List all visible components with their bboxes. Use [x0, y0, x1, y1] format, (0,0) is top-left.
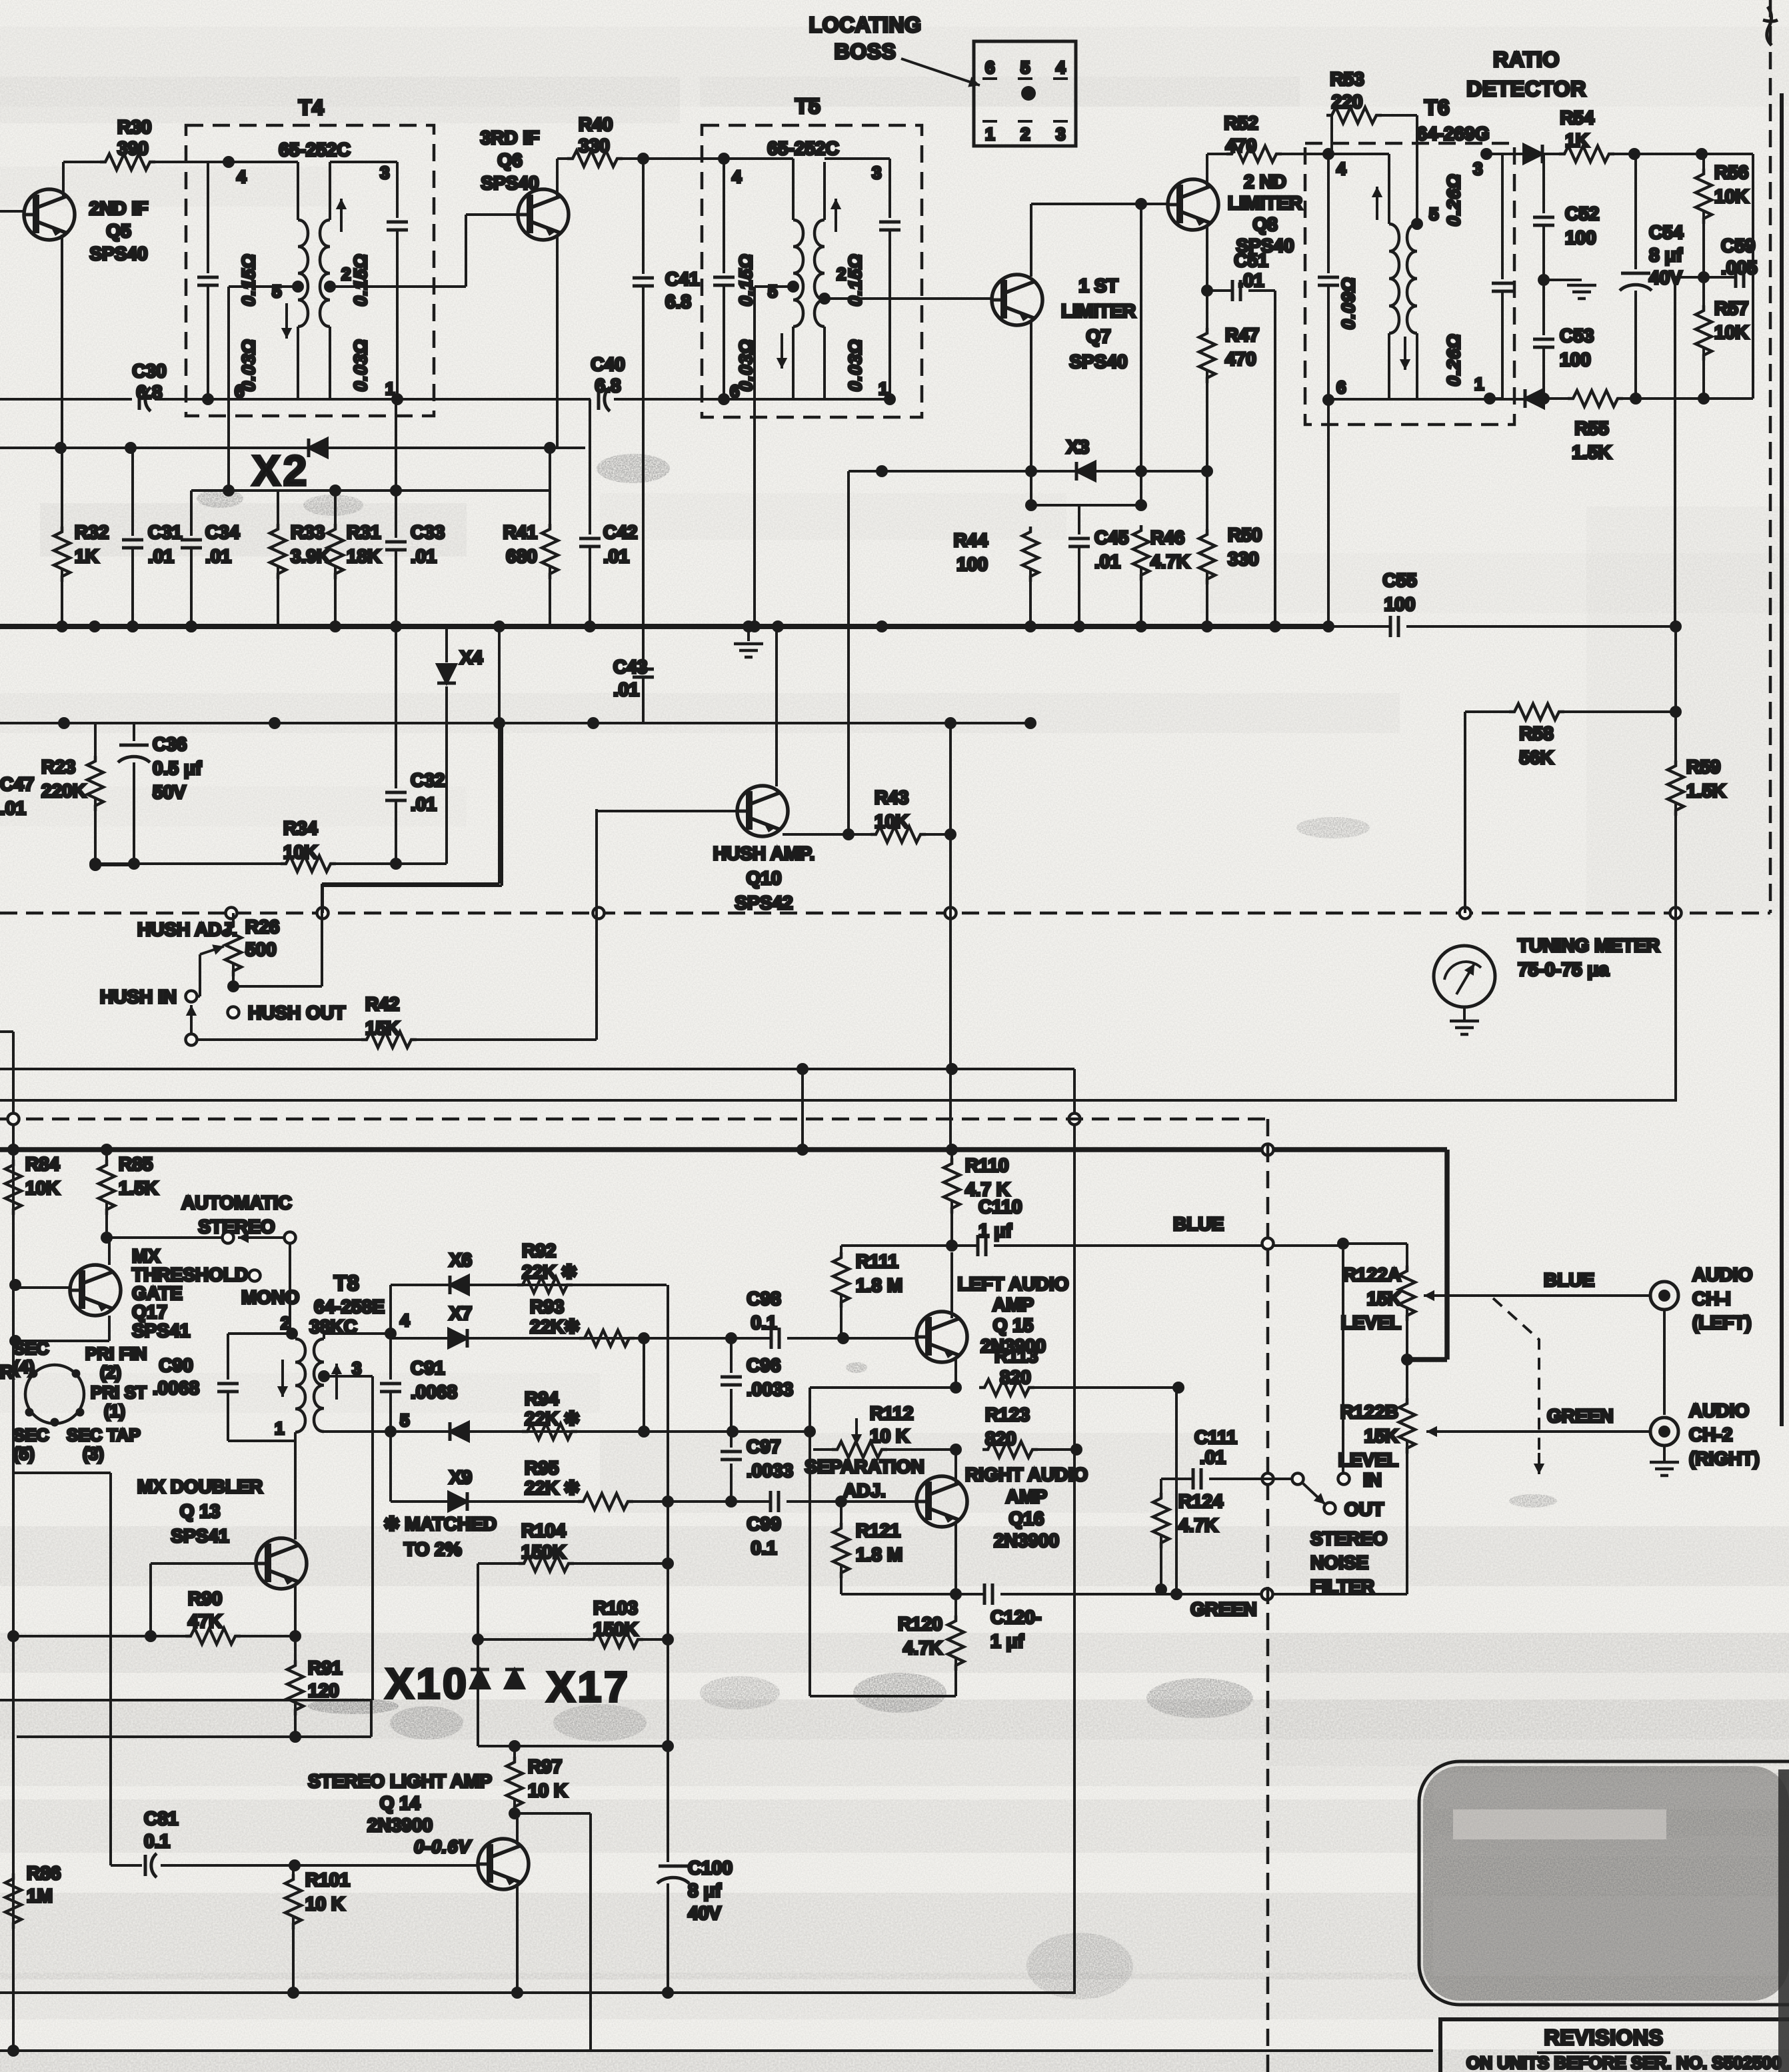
- inductor T6 primary: [1388, 154, 1390, 224]
- svg-text:R23: R23: [41, 756, 75, 777]
- svg-text:.0033: .0033: [747, 1379, 793, 1400]
- diode X detector bottom: [1525, 389, 1544, 408]
- svg-text:PRI FIN: PRI FIN: [85, 1344, 147, 1364]
- jack audio ch1: [1650, 1282, 1678, 1310]
- wire Q13 base: [151, 1562, 256, 1565]
- wire R30 right: [63, 161, 100, 163]
- svg-text:R86: R86: [27, 1863, 61, 1883]
- wire T4 pin2 tap: [324, 281, 336, 293]
- resistor R42: [361, 1032, 417, 1048]
- capacitor C53: [1542, 280, 1545, 335]
- svg-text:C51: C51: [1234, 250, 1268, 271]
- capacitor C59: [1736, 267, 1744, 288]
- wire net L3: [0, 447, 585, 449]
- svg-text:64-269G: 64-269G: [1417, 123, 1490, 144]
- svg-text:MONO: MONO: [241, 1287, 299, 1308]
- svg-text:(RIGHT): (RIGHT): [1689, 1448, 1760, 1469]
- wire Q17 emitter: [108, 1316, 111, 1341]
- wire rail A: [0, 1068, 1074, 1070]
- resistor R32: [61, 448, 63, 526]
- resistor R110: [950, 1150, 953, 1158]
- svg-text:BLUE: BLUE: [1544, 1270, 1594, 1290]
- svg-text:65-252C: 65-252C: [279, 139, 350, 160]
- capacitor T6 left: [1327, 154, 1330, 273]
- svg-text:75-0-75 μa: 75-0-75 μa: [1518, 959, 1609, 980]
- diode X detector top: [1524, 145, 1542, 163]
- svg-text:ON UNITS BEFORE SER. NO. S5025: ON UNITS BEFORE SER. NO. S502500: [1466, 2053, 1781, 2072]
- svg-text:2N3900: 2N3900: [367, 1815, 433, 1835]
- svg-text:3: 3: [380, 163, 389, 183]
- wire stereo line drop: [949, 723, 952, 834]
- svg-text:X6: X6: [449, 1250, 472, 1270]
- svg-text:4.7K: 4.7K: [903, 1637, 942, 1658]
- svg-text:R41: R41: [503, 522, 537, 542]
- svg-text:1 μf: 1 μf: [990, 1631, 1024, 1651]
- resistor R30: [100, 154, 155, 170]
- svg-text:DETECTOR: DETECTOR: [1466, 77, 1586, 101]
- svg-text:LIMITER: LIMITER: [1061, 301, 1136, 321]
- svg-text:0.15Ω: 0.15Ω: [239, 254, 259, 307]
- switch noise filter: [1303, 1484, 1325, 1504]
- svg-text:R95: R95: [525, 1458, 559, 1478]
- wire green line right: [1176, 1593, 1407, 1595]
- svg-text:AMP: AMP: [1006, 1486, 1047, 1507]
- svg-text:C100: C100: [688, 1857, 733, 1878]
- wire blue out: [1450, 1294, 1651, 1297]
- svg-text:4.7K: 4.7K: [1178, 1515, 1218, 1536]
- svg-text:4: 4: [237, 167, 247, 187]
- svg-text:MX DOUBLER: MX DOUBLER: [137, 1476, 263, 1497]
- transistor Q14: [477, 1839, 529, 1889]
- svg-text:.01: .01: [1094, 551, 1120, 572]
- big rounded box: [1419, 1761, 1789, 2005]
- svg-text:0.03Ω: 0.03Ω: [845, 339, 865, 392]
- resistor R58: [1509, 704, 1564, 720]
- top-right pen squiggle: [1763, 7, 1778, 45]
- svg-text:.0068: .0068: [153, 1378, 199, 1398]
- resistor R85: [105, 1150, 108, 1160]
- svg-text:R26: R26: [245, 916, 279, 937]
- wire Q5 base: [0, 210, 24, 213]
- scan noise filters: [0, 0, 1, 1]
- wire R92 corner: [667, 1285, 669, 1502]
- wire Q13 emitter: [294, 1585, 297, 1636]
- wire Q6 collector: [556, 159, 559, 196]
- svg-text:0.03Ω: 0.03Ω: [351, 339, 371, 392]
- svg-text:X10: X10: [385, 1659, 469, 1707]
- svg-text:6: 6: [1336, 377, 1346, 397]
- svg-text:8 μf: 8 μf: [688, 1880, 721, 1901]
- capacitor T5 left: [723, 159, 725, 273]
- svg-text:0.1: 0.1: [751, 1538, 777, 1558]
- inductor T8 primary: [295, 1339, 305, 1432]
- diode X4: [445, 626, 448, 662]
- diode X3: [1076, 462, 1095, 481]
- wire green out: [1466, 1430, 1651, 1433]
- wire T4 pin4 line: [229, 161, 298, 163]
- wire T5 pin5 tap: [787, 281, 799, 293]
- capacitor C45: [1078, 505, 1080, 534]
- svg-text:C41: C41: [665, 269, 699, 289]
- svg-text:0.5 μf: 0.5 μf: [153, 758, 202, 778]
- wire T5 pin2 tap: [819, 293, 831, 305]
- wire Q16 emitter: [954, 1523, 957, 1594]
- svg-text:R47: R47: [1225, 325, 1259, 345]
- diode X10: [471, 1669, 489, 1688]
- svg-text:R50: R50: [1228, 524, 1262, 545]
- terminal noise out: [1324, 1503, 1336, 1514]
- svg-text:150K: 150K: [593, 1619, 638, 1639]
- svg-text:X3: X3: [1066, 437, 1089, 457]
- wire switch feed: [107, 1236, 223, 1239]
- wire T6 bottom net: [1322, 394, 1334, 406]
- terminal hush in: [186, 991, 197, 1002]
- wire T8 pin1 line: [228, 1440, 295, 1442]
- svg-text:R31: R31: [347, 522, 381, 542]
- inductor T8 secondary: [314, 1339, 324, 1432]
- svg-text:1: 1: [275, 1418, 284, 1438]
- svg-text:Q17: Q17: [132, 1302, 167, 1322]
- resistor R93: [579, 1330, 635, 1346]
- svg-text:T8: T8: [334, 1271, 359, 1295]
- diode X17d: [505, 1669, 524, 1688]
- svg-text:.01: .01: [1200, 1447, 1226, 1468]
- arrow hush in: [190, 1005, 193, 1034]
- svg-text:3RD IF: 3RD IF: [481, 127, 540, 148]
- svg-text:Q 14: Q 14: [380, 1793, 421, 1813]
- meter M1: [1434, 946, 1495, 1007]
- capacitor C32: [395, 626, 397, 788]
- svg-text:3: 3: [872, 163, 881, 183]
- svg-text:330: 330: [1228, 548, 1259, 569]
- svg-text:C55: C55: [1382, 570, 1416, 590]
- wire T6 top net: [1486, 153, 1524, 155]
- capacitor C81: [111, 1864, 142, 1867]
- ground meter: [1463, 1007, 1466, 1020]
- capacitor C42: [589, 399, 591, 534]
- arrow T8 secondary: [335, 1364, 338, 1400]
- svg-text:64-258E: 64-258E: [314, 1296, 385, 1317]
- wire T5 pin3 line: [825, 157, 890, 160]
- svg-text:R30: R30: [117, 117, 151, 137]
- wire R120 bottom: [810, 1695, 956, 1697]
- svg-text:X17: X17: [547, 1663, 631, 1711]
- svg-text:Q8: Q8: [1252, 214, 1277, 235]
- diode X6: [450, 1276, 469, 1294]
- svg-text:C120-: C120-: [990, 1607, 1041, 1627]
- wire Q14 emitter: [516, 1883, 519, 1993]
- svg-text:HUSH IN: HUSH IN: [100, 986, 177, 1007]
- svg-text:C54: C54: [1649, 222, 1684, 243]
- wire Q10 base: [597, 810, 737, 812]
- locating boss arrow: [901, 59, 980, 85]
- capacitor C41: [642, 159, 645, 274]
- svg-text:(5): (5): [13, 1444, 35, 1464]
- inductor T5 primary: [792, 159, 795, 220]
- svg-text:C96: C96: [747, 1355, 781, 1376]
- transformer T4 box: [186, 125, 434, 416]
- svg-text:R56: R56: [1714, 162, 1748, 183]
- paper noise bands: [0, 27, 1789, 107]
- capacitor C97: [730, 1432, 733, 1448]
- svg-text:THRESHOLD: THRESHOLD: [132, 1264, 248, 1285]
- wire R59 to rail B: [1674, 913, 1677, 1100]
- svg-text:.0033: .0033: [747, 1460, 793, 1481]
- svg-text:BOSS: BOSS: [835, 39, 896, 63]
- svg-text:Q16: Q16: [1009, 1508, 1044, 1529]
- svg-text:3.9K: 3.9K: [291, 546, 330, 566]
- svg-text:3: 3: [352, 1358, 361, 1378]
- svg-text:10K: 10K: [283, 842, 317, 862]
- wire left stub: [0, 1030, 13, 1033]
- resistor R103: [478, 1638, 591, 1641]
- resistor R34: [281, 856, 336, 872]
- inductor T4 primary: [297, 162, 299, 220]
- locating boss dot: [1021, 86, 1036, 101]
- svg-text:R46: R46: [1150, 527, 1184, 548]
- svg-text:10 K: 10 K: [305, 1893, 345, 1914]
- svg-text:C52: C52: [1565, 203, 1599, 224]
- svg-text:SPS40: SPS40: [89, 243, 147, 264]
- svg-text:BLUE: BLUE: [1173, 1214, 1224, 1234]
- svg-text:FILTER: FILTER: [1310, 1576, 1374, 1597]
- svg-text:Q5: Q5: [106, 221, 131, 241]
- transistor Q16 RIGHT AUDIO: [915, 1476, 967, 1527]
- ground jack ch2: [1663, 1446, 1666, 1461]
- svg-text:.01: .01: [205, 546, 231, 566]
- svg-text:SEC: SEC: [13, 1338, 49, 1358]
- svg-text:✱ MATCHED: ✱ MATCHED: [384, 1514, 497, 1534]
- svg-text:Q7: Q7: [1086, 326, 1110, 347]
- svg-text:SPS42: SPS42: [735, 892, 793, 913]
- wire tap rail x559: [371, 1376, 374, 1700]
- resistor R57: [1702, 277, 1705, 305]
- svg-text:R40: R40: [579, 114, 613, 135]
- wire C51 right rail: [1274, 291, 1276, 626]
- svg-text:1M: 1M: [27, 1885, 53, 1906]
- svg-text:100: 100: [1565, 227, 1596, 248]
- wire net L2: [0, 398, 132, 401]
- arrow R122A wiper: [1424, 1294, 1450, 1297]
- svg-text:CH-I: CH-I: [1692, 1288, 1731, 1309]
- wire X9 right: [633, 1500, 771, 1503]
- svg-text:1.5K: 1.5K: [1572, 442, 1611, 463]
- svg-text:100: 100: [1384, 594, 1416, 614]
- resistor R92: [517, 1277, 573, 1293]
- wire noise in rail: [1342, 1250, 1344, 1473]
- wire X6 net: [389, 1285, 392, 1334]
- svg-text:4: 4: [732, 167, 742, 187]
- resistor R33: [277, 491, 279, 524]
- terminal noise in b: [1338, 1474, 1350, 1485]
- capacitor C52: [1542, 154, 1545, 213]
- svg-text:.01: .01: [603, 546, 629, 566]
- svg-text:CH-2: CH-2: [1689, 1424, 1732, 1445]
- wire R97 right: [478, 1745, 668, 1747]
- capacitor T4 right: [396, 162, 399, 218]
- svg-text:R42: R42: [365, 994, 399, 1014]
- capacitor C36: [133, 723, 135, 741]
- resistor R47: [1206, 291, 1208, 328]
- wire T4 pin3 line: [330, 161, 397, 163]
- svg-text:6: 6: [985, 57, 994, 77]
- svg-text:1: 1: [1474, 374, 1484, 394]
- svg-text:10K: 10K: [25, 1178, 59, 1198]
- svg-text:LOCATING: LOCATING: [809, 13, 922, 37]
- wire T6 pin5 tap: [1411, 218, 1423, 230]
- svg-text:4: 4: [1056, 57, 1066, 77]
- transistor Q17 MX THRESHOLD: [69, 1265, 121, 1316]
- svg-text:470: 470: [1226, 135, 1257, 156]
- svg-text:470: 470: [1225, 349, 1256, 369]
- terminal hush out: [228, 1007, 239, 1018]
- svg-text:REVISIONS: REVISIONS: [1544, 2025, 1664, 2049]
- transformer T6 box: [1305, 143, 1514, 425]
- svg-text:1 ST: 1 ST: [1078, 275, 1118, 296]
- capacitor C31: [131, 448, 134, 536]
- inductor T6 secondary: [1407, 224, 1417, 333]
- wire R26 bottom net: [233, 985, 322, 988]
- wire green line left: [841, 1593, 984, 1595]
- svg-text:R93: R93: [530, 1296, 564, 1317]
- svg-text:R33: R33: [291, 522, 325, 542]
- wire T4 pin5 tap: [292, 281, 304, 293]
- terminal stereo sw: [285, 1232, 296, 1244]
- wire SCA branch: [847, 471, 850, 833]
- svg-text:0.03Ω: 0.03Ω: [736, 339, 756, 392]
- wire X7 to C98: [644, 1337, 771, 1340]
- svg-text:0.1: 0.1: [144, 1831, 170, 1851]
- svg-text:C42: C42: [603, 522, 637, 542]
- svg-text:C53: C53: [1560, 325, 1594, 346]
- svg-text:22K ✱: 22K ✱: [525, 1478, 580, 1498]
- svg-text:R52: R52: [1224, 113, 1258, 133]
- svg-text:HUSH OUT: HUSH OUT: [248, 1002, 345, 1023]
- wire Q10 base rail: [595, 809, 598, 1040]
- svg-text:T6: T6: [1424, 95, 1450, 119]
- svg-text:1.5K: 1.5K: [119, 1178, 158, 1198]
- resistor R113: [979, 1380, 1034, 1396]
- svg-text:LEVEL: LEVEL: [1341, 1312, 1401, 1333]
- wire Q13 collector: [294, 1441, 297, 1540]
- wire R113 net: [810, 1386, 956, 1389]
- capacitor C100: [667, 1746, 669, 1862]
- svg-text:56K: 56K: [1519, 747, 1553, 768]
- svg-text:(2): (2): [100, 1362, 121, 1382]
- svg-text:Q 15: Q 15: [993, 1315, 1034, 1336]
- arrow T8 primary: [281, 1360, 284, 1397]
- dashed wiper link: [1493, 1298, 1539, 1466]
- svg-text:T5: T5: [795, 94, 821, 118]
- resistor R95: [578, 1494, 633, 1510]
- arrow T6 primary: [1376, 187, 1378, 220]
- resistor R31: [334, 491, 337, 524]
- svg-text:IN: IN: [1363, 1470, 1382, 1490]
- wire C52 C53 ground stub: [1544, 279, 1582, 281]
- svg-text:C47: C47: [0, 774, 34, 794]
- arrow T5 primary: [781, 333, 783, 369]
- svg-text:ADJ.: ADJ.: [843, 1480, 886, 1501]
- svg-text:Q10: Q10: [747, 868, 782, 888]
- svg-text:2ND IF: 2ND IF: [89, 198, 149, 219]
- svg-text:8 μf: 8 μf: [1649, 245, 1682, 265]
- svg-text:R113: R113: [994, 1346, 1038, 1366]
- jack audio ch2: [1650, 1418, 1678, 1446]
- transistor Q10 HUSH AMP: [736, 786, 788, 836]
- resistor R94: [522, 1424, 577, 1440]
- wire T8 pin4 net: [324, 1332, 391, 1335]
- resistor R123: [982, 1442, 1038, 1458]
- wire C59 net: [1698, 271, 1710, 283]
- svg-text:SPS41: SPS41: [171, 1526, 229, 1546]
- terminal noise in a: [1292, 1474, 1304, 1485]
- svg-text:4.7K: 4.7K: [1150, 551, 1190, 572]
- resistor R54: [1542, 153, 1562, 155]
- svg-text:R112: R112: [870, 1403, 913, 1424]
- resistor R46: [1133, 525, 1149, 580]
- resistor R121: [840, 1502, 843, 1523]
- svg-text:2N3900: 2N3900: [994, 1530, 1059, 1551]
- svg-text:AUDIO: AUDIO: [1689, 1400, 1749, 1421]
- transistor Q6 3RD IF: [517, 189, 569, 240]
- svg-text:5: 5: [768, 281, 777, 301]
- svg-text:330: 330: [579, 135, 610, 156]
- wire T5 pin4 line: [724, 157, 793, 160]
- diode X7: [449, 1329, 467, 1348]
- wire jack ch1 down: [1663, 1310, 1666, 1415]
- svg-text:18K: 18K: [347, 546, 381, 566]
- svg-text:5: 5: [1020, 57, 1030, 77]
- inductor T5 secondary: [815, 220, 825, 327]
- wire X7 net: [391, 1337, 644, 1340]
- svg-text:RATIO: RATIO: [1493, 47, 1560, 71]
- wire T8 pin2: [286, 1328, 298, 1340]
- potentiometer R122B: [1406, 1360, 1408, 1398]
- svg-text:2: 2: [341, 264, 351, 284]
- svg-text:R55: R55: [1574, 418, 1608, 439]
- wire hush out net: [197, 1038, 364, 1041]
- pickup coil diagram: [25, 1365, 84, 1424]
- wire Q6 emitter: [556, 235, 559, 448]
- svg-text:RIGHT AUDIO: RIGHT AUDIO: [965, 1464, 1088, 1485]
- resistor R97: [509, 1740, 521, 1752]
- wire Q7 collector: [1030, 204, 1032, 277]
- svg-text:1K: 1K: [75, 546, 99, 566]
- dashed module border stereo top: [0, 1118, 1268, 1121]
- wire net L4: [191, 489, 550, 492]
- svg-text:R120: R120: [898, 1613, 942, 1634]
- potentiometer R122A: [1399, 1266, 1415, 1321]
- svg-text:(LEFT): (LEFT): [1692, 1312, 1752, 1333]
- svg-text:R: R: [0, 1362, 13, 1382]
- capacitor C33: [395, 401, 397, 538]
- wire X8 net: [324, 1430, 641, 1433]
- wire Q5 emitter: [61, 235, 63, 448]
- svg-text:X9: X9: [449, 1467, 472, 1488]
- wire detector output rail: [1674, 277, 1676, 626]
- svg-text:4: 4: [1336, 159, 1346, 179]
- svg-text:R44: R44: [954, 530, 988, 550]
- terminal auto: [223, 1232, 234, 1244]
- transistor Q5 2ND IF: [23, 189, 75, 240]
- capacitor C91: [389, 1334, 392, 1380]
- svg-text:LEVEL: LEVEL: [1338, 1450, 1398, 1470]
- capacitor T6 right: [1501, 154, 1504, 279]
- potentiometer R26: [232, 913, 235, 921]
- wire x1002 r104 r103: [662, 1557, 674, 1569]
- svg-text:R110: R110: [965, 1155, 1008, 1176]
- wire Q16 collector: [954, 1450, 957, 1483]
